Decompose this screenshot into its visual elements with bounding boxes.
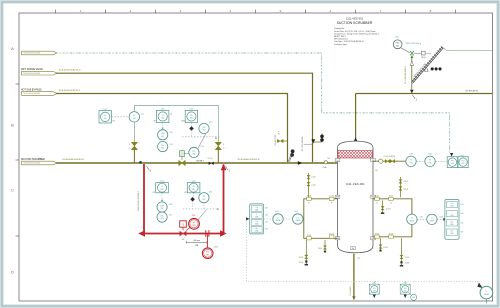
pill label main suction line xyxy=(22,161,57,165)
svg-text:2301: 2301 xyxy=(373,282,377,284)
svg-text:982: 982 xyxy=(161,136,164,138)
svg-text:TW 111-DNG-PG-W-DSG: TW 111-DNG-PG-W-DSG xyxy=(23,163,41,165)
svg-text:UIT: UIT xyxy=(113,121,116,123)
svg-text:996: 996 xyxy=(462,163,465,165)
svg-text:1111-VES-301: 1111-VES-301 xyxy=(346,17,364,21)
N2 nozzle text xyxy=(352,142,356,145)
LG-330B bubble xyxy=(427,214,437,224)
sloped flare header xyxy=(411,47,443,84)
svg-text:N1: N1 xyxy=(337,160,339,162)
svg-text:TW 111-DNG-PG-W-DSG: TW 111-DNG-PG-W-DSG xyxy=(23,73,41,75)
riser bottom arrow xyxy=(410,90,414,94)
dimension 400mm xyxy=(187,241,208,244)
svg-text:1033: 1033 xyxy=(409,154,413,156)
leader SC/MOV note xyxy=(304,143,313,145)
svg-text:111-A-DB-DR-W-B2301-N: 111-A-DB-DR-W-B2301-N xyxy=(59,69,81,72)
svg-text:330B: 330B xyxy=(450,224,453,226)
UIT square left (loop) xyxy=(156,183,169,193)
FIC controller square xyxy=(99,111,111,123)
svg-text:C: C xyxy=(11,188,14,193)
reducer circle and nozzle note xyxy=(324,161,327,164)
right vent riser valves xyxy=(400,177,402,197)
svg-text:982: 982 xyxy=(192,189,195,191)
svg-text:NOTE 2: NOTE 2 xyxy=(197,161,205,163)
left stub drop valve xyxy=(324,240,326,252)
svg-text:1016: 1016 xyxy=(161,109,165,111)
svg-text:111-LG-08-1048-B2301-V: 111-LG-08-1048-B2301-V xyxy=(405,65,407,84)
svg-text:PURGE POINT: PURGE POINT xyxy=(275,134,277,145)
svg-text:ZSL: ZSL xyxy=(160,216,163,218)
flange dots trio xyxy=(431,67,434,70)
svg-text:111-4B: 111-4B xyxy=(307,196,311,198)
nozzle boxes left wall xyxy=(335,158,340,239)
LT to LG link xyxy=(283,218,292,220)
svg-text:111-1B: 111-1B xyxy=(329,233,333,235)
svg-text:981: 981 xyxy=(133,118,136,120)
ZI squares upper xyxy=(157,110,198,122)
svg-text:SPO (Stainless): SPO (Stainless) xyxy=(334,38,348,41)
ZSL bubble loop xyxy=(157,212,167,222)
red loop bottom run xyxy=(140,233,226,235)
line 2 anti-surge pipe xyxy=(56,73,313,162)
svg-text:330B: 330B xyxy=(450,233,453,235)
svg-text:1032: 1032 xyxy=(460,232,463,234)
solenoid box xyxy=(180,151,185,157)
revision flag 1 riser xyxy=(412,95,415,99)
red loop right leg xyxy=(223,165,225,234)
svg-text:111-A-DB-DR-W-B2301-F: 111-A-DB-DR-W-B2301-F xyxy=(59,89,81,92)
svg-text:B: B xyxy=(11,122,14,127)
svg-text:PSET 0750 kPa-g: PSET 0750 kPa-g xyxy=(406,43,421,45)
svg-text:111-A-DB-AR-W-B2301-N: 111-A-DB-AR-W-B2301-N xyxy=(62,158,84,161)
title: property notes block xyxy=(334,27,380,46)
vessel outlet row to PI xyxy=(373,160,406,162)
svg-text:24: 24 xyxy=(170,113,172,115)
svg-text:982: 982 xyxy=(161,148,164,150)
svg-text:982: 982 xyxy=(202,199,205,201)
signal drops loop xyxy=(161,193,163,201)
red arrow up into main line xyxy=(221,164,227,171)
ZSL bubble upper xyxy=(158,142,168,152)
flare tail line xyxy=(442,47,492,51)
svg-text:1035: 1035 xyxy=(460,155,464,157)
svg-text:330B: 330B xyxy=(450,215,453,217)
svg-text:ZIL: ZIL xyxy=(192,186,195,188)
PI-996B bubble xyxy=(425,156,435,166)
svg-text:111-P: 111-P xyxy=(278,131,280,135)
svg-text:N7: N7 xyxy=(375,170,377,172)
signal drops upper xyxy=(162,123,164,129)
vapour outlet header xyxy=(356,93,492,95)
svg-text:1031: 1031 xyxy=(460,222,463,224)
flow arrow on main line xyxy=(298,161,302,165)
svg-text:HOT GAS BY-PASS: HOT GAS BY-PASS xyxy=(21,88,42,91)
arrow into LIA stack xyxy=(246,217,249,220)
svg-text:1054: 1054 xyxy=(209,191,213,193)
svg-text:1015: 1015 xyxy=(189,109,193,111)
svg-text:1022: 1022 xyxy=(294,211,298,213)
svg-text:111-276: 111-276 xyxy=(386,208,391,210)
shutdown signal dashed bus xyxy=(247,221,479,281)
left bridle tag boxes lower xyxy=(307,235,334,240)
mechanical link lines xyxy=(134,106,218,143)
open triangle vent marker xyxy=(424,67,428,71)
red recycle loop left leg xyxy=(143,164,145,234)
svg-text:1019: 1019 xyxy=(169,144,173,146)
ZIH bubble loop xyxy=(199,193,209,203)
LIA stack to LT dashes xyxy=(264,218,273,220)
svg-text:982: 982 xyxy=(161,118,164,120)
right hanging valve below upper stub xyxy=(382,200,384,213)
HV globe valve xyxy=(180,231,187,237)
LG-330A bubble xyxy=(293,214,303,224)
svg-text:N5: N5 xyxy=(328,158,330,160)
svg-text:330: 330 xyxy=(404,290,407,292)
svg-text:Insulation Spec:: Insulation Spec: xyxy=(334,43,348,46)
svg-text:1111: 1111 xyxy=(395,37,398,39)
HV bubble red xyxy=(189,218,200,229)
UIT square right (loop) xyxy=(187,183,200,193)
PIT stub and bubble xyxy=(206,234,208,249)
spec break bars xyxy=(205,230,207,237)
relief valve symbol xyxy=(410,51,414,55)
svg-text:UIT: UIT xyxy=(184,192,187,194)
svg-text:111-26: 111-26 xyxy=(311,185,315,187)
svg-text:Trim Spec: S 301-3205-B-B2301-: Trim Spec: S 301-3205-B-B2301-N xyxy=(334,40,364,43)
svg-text:111-B2: 111-B2 xyxy=(307,235,312,237)
left bridle tag boxes upper xyxy=(307,197,334,200)
svg-text:111-26: 111-26 xyxy=(405,257,409,259)
hand valve HY-981 on main line xyxy=(179,160,185,166)
left ruler ticks xyxy=(16,84,20,236)
HV link diagonal xyxy=(198,210,207,221)
spectacle blind xyxy=(291,149,295,153)
HY bubble xyxy=(189,147,199,157)
PIT-996 square xyxy=(447,157,457,168)
LI-330A field bubble xyxy=(480,286,493,299)
svg-text:982: 982 xyxy=(161,189,164,191)
diverter diamond upper xyxy=(189,126,194,131)
svg-text:301: 301 xyxy=(396,45,399,47)
svg-text:NO POCKETS: NO POCKETS xyxy=(466,91,479,93)
red arrow bottom left xyxy=(138,230,145,236)
svg-text:1026: 1026 xyxy=(265,229,268,231)
svg-text:F: F xyxy=(129,144,130,146)
svg-text:981: 981 xyxy=(193,225,196,227)
svg-text:111-A-273-AR-W-B2301-V: 111-A-273-AR-W-B2301-V xyxy=(137,190,140,211)
right bridle tag boxes upper xyxy=(375,197,394,200)
svg-text:16: 16 xyxy=(308,202,310,204)
FV positioner bubble xyxy=(129,112,139,122)
svg-text:16: 16 xyxy=(390,202,392,204)
svg-text:111-DB: 111-DB xyxy=(299,262,304,264)
svg-text:TW 111-DNG-PG-W-DSG: TW 111-DNG-PG-W-DSG xyxy=(23,93,41,95)
control valve FV-981 xyxy=(129,142,138,163)
svg-text:1023: 1023 xyxy=(265,208,268,210)
svg-text:ZIL: ZIL xyxy=(190,115,193,117)
vessel 1111-VES-301 shell xyxy=(338,141,374,253)
column numbers xyxy=(80,9,432,13)
vessel bottom drain line xyxy=(353,254,355,300)
purge point xyxy=(282,140,288,142)
svg-text:N2: N2 xyxy=(358,258,360,260)
svg-text:111-40: 111-40 xyxy=(311,177,315,179)
svg-text:SC / MOV HIDDEN: SC / MOV HIDDEN xyxy=(302,136,304,151)
row letters xyxy=(11,46,14,274)
pill label line 2 xyxy=(22,71,57,75)
svg-text:111-1B: 111-1B xyxy=(318,248,322,250)
top ruler ticks xyxy=(56,10,456,14)
svg-text:Property No:: Property No: xyxy=(334,27,345,30)
PSV relief valve bubble xyxy=(393,37,402,49)
svg-text:1030: 1030 xyxy=(460,213,463,215)
svg-text:TB-80: TB-80 xyxy=(421,57,425,59)
svg-text:111-26: 111-26 xyxy=(389,196,393,198)
svg-text:996: 996 xyxy=(410,162,413,164)
right bridle piping xyxy=(373,199,412,237)
svg-text:25x80: 25x80 xyxy=(323,167,327,169)
line 2 flow arrow xyxy=(311,139,315,143)
diverter diamond loop xyxy=(190,197,195,202)
svg-text:1021: 1021 xyxy=(275,211,279,213)
svg-text:1028: 1028 xyxy=(439,217,443,219)
svg-text:982: 982 xyxy=(161,208,164,210)
line 1 instrument dashed header xyxy=(56,53,450,153)
svg-text:981: 981 xyxy=(104,118,107,120)
svg-text:1111-26: 1111-26 xyxy=(403,189,408,191)
ZIH bubble upper xyxy=(199,123,209,133)
svg-text:N6: N6 xyxy=(352,248,354,250)
TB-80 test bleed xyxy=(414,52,422,54)
svg-text:SUCTION SCRUBBER: SUCTION SCRUBBER xyxy=(21,159,45,161)
revision flag 1 left xyxy=(147,166,150,170)
svg-text:P: P xyxy=(479,286,480,288)
svg-text:111-(2): 111-(2) xyxy=(208,158,213,160)
svg-text:1013: 1013 xyxy=(209,122,213,124)
open triangle arrow on riser xyxy=(410,61,414,65)
svg-text:1123: 1123 xyxy=(200,146,204,148)
svg-text:1025: 1025 xyxy=(265,222,268,224)
gate valve right row xyxy=(385,159,390,163)
signal FIC to FV xyxy=(111,116,129,118)
svg-text:111-NB: 111-NB xyxy=(299,257,304,259)
PDI-996 square xyxy=(458,157,468,168)
svg-text:111-A-DB-AR-W-B2301-N: 111-A-DB-AR-W-B2301-N xyxy=(238,158,260,161)
svg-text:1056: 1056 xyxy=(169,204,173,206)
svg-text:16: 16 xyxy=(376,202,378,204)
svg-text:1058: 1058 xyxy=(160,181,164,183)
arrow into LI-330A xyxy=(477,281,481,286)
right bridle drain xyxy=(401,238,403,265)
ESD logic box 1 xyxy=(369,281,379,298)
svg-text:1111: 1111 xyxy=(103,109,106,111)
PSV inlet riser xyxy=(411,55,413,93)
nozzle boxes right wall xyxy=(371,158,376,239)
svg-text:LSH: LSH xyxy=(451,203,454,205)
SP reducer circle xyxy=(379,159,383,163)
arrow into PIT square xyxy=(450,153,453,157)
svg-text:111-LG-08-B2301: 111-LG-08-B2301 xyxy=(384,156,396,158)
right stub drop valve xyxy=(380,238,382,250)
svg-text:111-1B: 111-1B xyxy=(389,233,393,235)
vent stub with flange pair xyxy=(313,134,322,143)
inline black valve xyxy=(209,162,214,165)
svg-text:1121: 1121 xyxy=(192,215,196,217)
svg-text:982: 982 xyxy=(203,130,206,132)
ZSH bubble loop xyxy=(157,202,167,212)
svg-text:111-40: 111-40 xyxy=(375,196,379,198)
svg-text:981: 981 xyxy=(192,154,195,156)
HV actuator xyxy=(180,221,187,227)
svg-text:1017: 1017 xyxy=(169,132,173,134)
svg-text:1131: 1131 xyxy=(214,247,218,249)
svg-text:UIT: UIT xyxy=(153,120,156,122)
revision flag 1 right xyxy=(225,166,228,170)
ESD logic box 2 xyxy=(400,281,410,298)
svg-text:16: 16 xyxy=(331,202,333,204)
pill label line 1 xyxy=(22,51,57,55)
svg-text:1057: 1057 xyxy=(169,214,173,216)
svg-text:A: A xyxy=(11,46,14,51)
svg-text:D: D xyxy=(11,269,14,274)
svg-text:1027: 1027 xyxy=(420,217,424,219)
LT-330A bubble xyxy=(273,214,283,224)
vessel top riser xyxy=(355,94,357,142)
svg-text:1029: 1029 xyxy=(460,204,463,206)
svg-text:111-NB: 111-NB xyxy=(405,263,410,265)
signal bus upper xyxy=(182,136,220,138)
svg-text:UIT: UIT xyxy=(153,192,156,194)
svg-text:982: 982 xyxy=(190,118,193,120)
svg-text:1111-VES-301: 1111-VES-301 xyxy=(346,182,365,186)
svg-text:111-1B: 111-1B xyxy=(329,196,333,198)
svg-text:111-B2: 111-B2 xyxy=(375,233,380,235)
svg-text:996: 996 xyxy=(451,163,454,165)
signal bus loop xyxy=(183,208,217,210)
svg-text:111-1B: 111-1B xyxy=(383,247,387,249)
svg-text:400 mm: 400 mm xyxy=(193,240,200,242)
svg-text:982: 982 xyxy=(161,218,164,220)
svg-text:1111-40: 1111-40 xyxy=(403,181,408,183)
control valve right xyxy=(215,142,225,163)
N6 bottom nozzle label xyxy=(351,247,355,250)
svg-text:330: 330 xyxy=(373,290,376,292)
svg-text:ANTI SURGE VALVE: ANTI SURGE VALVE xyxy=(21,68,43,71)
LT-330B bubble xyxy=(407,214,417,224)
LSH indicator stack right xyxy=(445,200,459,240)
ZSH bubble upper xyxy=(158,130,168,140)
svg-text:2302: 2302 xyxy=(404,282,408,284)
svg-text:1059: 1059 xyxy=(192,181,196,183)
line 3 hot gas pipe xyxy=(56,94,288,163)
PI link dashes xyxy=(416,160,425,162)
left bridle drain xyxy=(305,240,307,265)
left bridle piping xyxy=(304,199,338,239)
main suction pipe xyxy=(56,162,338,164)
svg-text:330A: 330A xyxy=(484,293,489,296)
pill label line 3 xyxy=(22,92,57,96)
HY link diagonal xyxy=(198,134,206,149)
LIA indicator stack xyxy=(250,204,264,234)
junction dot xyxy=(139,161,142,164)
right bridle tag boxes lower xyxy=(375,235,394,238)
svg-text:ZSL: ZSL xyxy=(161,145,164,147)
svg-text:SUCTION SCRUBBER: SUCTION SCRUBBER xyxy=(337,21,373,25)
svg-text:Design Press / Design Temp: 10: Design Press / Design Temp: 1050 kPa-g @… xyxy=(334,32,380,35)
svg-text:1034: 1034 xyxy=(428,154,432,156)
left vent riser with valves xyxy=(308,173,310,197)
svg-text:330B: 330B xyxy=(450,206,453,208)
svg-text:996: 996 xyxy=(429,162,432,164)
svg-text:1024: 1024 xyxy=(265,215,268,217)
svg-text:F: F xyxy=(223,144,224,146)
svg-text:976: 976 xyxy=(141,114,144,116)
svg-text:TW 111-DNG-PG-W-DSG: TW 111-DNG-PG-W-DSG xyxy=(23,53,41,55)
svg-text:991: 991 xyxy=(206,254,209,256)
WD small bubble xyxy=(409,293,412,296)
PSV outlet leader xyxy=(401,48,410,53)
red arrow bottom right xyxy=(220,230,227,236)
PI-996 bubble xyxy=(406,156,416,166)
demister mesh pad xyxy=(338,151,373,158)
